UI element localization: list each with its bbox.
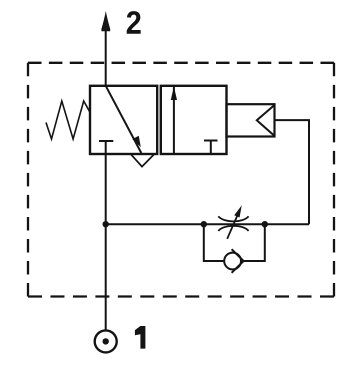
arrowhead right box flow path bbox=[171, 86, 177, 100]
check valve seat bbox=[232, 249, 244, 273]
label port 1 bbox=[135, 326, 146, 349]
wire port 1 bbox=[105, 154, 107, 330]
throttle valve arcs bbox=[218, 216, 248, 231]
arrowhead diagonal flow path bbox=[132, 136, 140, 147]
port 1 center dot bbox=[103, 338, 109, 344]
wire check valve branch right bbox=[244, 224, 265, 261]
label port 2 bbox=[127, 11, 141, 34]
enclosure dashed border right bbox=[333, 63, 335, 297]
node B junction dot left of throttle bbox=[201, 221, 207, 227]
pilot box bbox=[227, 104, 275, 136]
blocked port T left box bbox=[99, 141, 113, 154]
throttle adjustment arrow bbox=[227, 216, 237, 239]
valve flow path arrow 1-2 (right box) bbox=[173, 87, 175, 154]
blocked port T right box bbox=[204, 141, 218, 155]
wire main horizontal bbox=[106, 223, 309, 225]
spring return bbox=[46, 101, 90, 139]
arrowhead throttle adjuster bbox=[234, 205, 241, 217]
enclosure dashed border bottom bbox=[28, 295, 334, 297]
enclosure dashed border left bbox=[27, 63, 29, 297]
arrowhead port 2 bbox=[101, 11, 110, 31]
node C junction dot right of throttle bbox=[262, 221, 268, 227]
port 1 source circle bbox=[95, 330, 117, 352]
pilot triangle bbox=[257, 105, 275, 136]
valve V1 position box left bbox=[90, 86, 157, 154]
wire check valve branch left bbox=[204, 224, 224, 261]
node A junction dot bbox=[103, 221, 109, 227]
exhaust vent V bbox=[131, 154, 154, 166]
wire port 2 bbox=[105, 27, 107, 86]
valve flow path arrow 2-3 (left box diagonal) bbox=[106, 86, 142, 153]
enclosure dashed border top bbox=[28, 62, 334, 64]
valve V1 position box right bbox=[161, 86, 227, 154]
wire pilot to node B bbox=[275, 120, 310, 224]
check valve ball bbox=[224, 253, 241, 270]
